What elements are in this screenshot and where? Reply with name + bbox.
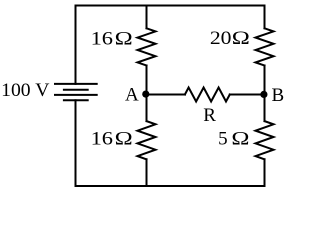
svg-text:Ω: Ω (115, 128, 133, 149)
wire node B to resistor R4 (264, 95, 266, 122)
wire resistor R to node B (230, 94, 265, 96)
resistor R3 20 ohm (top right) (256, 28, 274, 65)
svg-text:100 V: 100 V (1, 80, 49, 101)
svg-text:B: B (272, 85, 285, 106)
wire middle branch top (146, 6, 148, 29)
svg-text:16: 16 (91, 28, 113, 49)
wire left edge upper (75, 6, 77, 84)
svg-text:20: 20 (210, 28, 232, 49)
svg-text:5: 5 (218, 129, 228, 150)
resistor R4 5 ohm (bottom right) (256, 121, 274, 159)
svg-text:A: A (125, 85, 139, 106)
node A junction dot (142, 91, 149, 98)
wire middle branch bottom (146, 159, 148, 186)
svg-text:Ω: Ω (231, 128, 249, 149)
wire right edge lower (264, 159, 266, 186)
wire node A to resistor R2 (146, 95, 148, 122)
svg-text:Ω: Ω (232, 27, 250, 48)
wire node A to resistor R (147, 94, 185, 96)
node B junction dot (260, 91, 267, 98)
svg-text:16: 16 (91, 128, 113, 149)
svg-text:Ω: Ω (115, 28, 133, 49)
wire resistor R1 to node A (146, 66, 148, 95)
wire bottom edge (76, 185, 265, 187)
wire top edge (76, 5, 265, 7)
resistor R1 16 ohm (top middle) (138, 28, 156, 65)
wire resistor R3 to node B (264, 66, 266, 95)
wire right edge upper (264, 6, 266, 29)
resistor R2 16 ohm (bottom middle) (138, 121, 156, 159)
wire left edge lower (75, 100, 77, 186)
svg-text:R: R (203, 105, 216, 126)
battery V1 100 V (55, 84, 97, 100)
resistor R (middle horizontal) (185, 88, 230, 102)
